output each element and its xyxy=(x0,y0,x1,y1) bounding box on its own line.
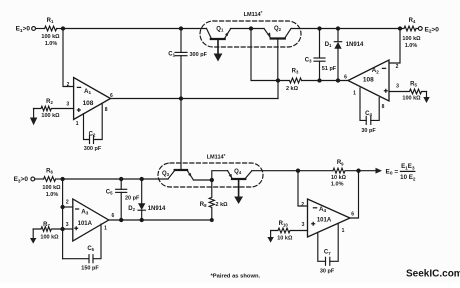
svg-text:8: 8 xyxy=(105,107,108,113)
transistor Q4 xyxy=(228,171,252,197)
svg-text:6: 6 xyxy=(351,211,354,217)
svg-text:C5: C5 xyxy=(106,189,113,195)
svg-text:1: 1 xyxy=(342,228,345,234)
junction R8 bottom corner xyxy=(210,219,213,222)
svg-text:E2>0: E2>0 xyxy=(425,26,440,34)
resistor R5 xyxy=(389,89,427,94)
op-amp A2 xyxy=(348,60,389,101)
wire node B down to A1 output xyxy=(277,81,279,99)
svg-text:100 kΩ: 100 kΩ xyxy=(41,34,60,40)
wire node D down to C6 loop xyxy=(62,179,64,259)
op-amp A3 xyxy=(73,199,109,241)
ground at Q4 base xyxy=(234,197,243,205)
wire Q3 base riser xyxy=(180,99,182,171)
junction A3 pin2 tee xyxy=(61,205,64,208)
wire node D to Q3 emitter-left xyxy=(63,178,168,180)
svg-text:100 kΩ: 100 kΩ xyxy=(40,235,59,241)
svg-text:101A: 101A xyxy=(317,217,332,223)
svg-text:E0 =: E0 = xyxy=(386,168,399,176)
capacitor C4 (A2 comp, pin1-pin8) xyxy=(360,88,379,125)
junction C5 top xyxy=(120,177,123,180)
junction D1 top xyxy=(336,27,339,30)
op-amp A4 xyxy=(308,199,351,237)
svg-text:LM114*: LM114* xyxy=(244,10,263,18)
wire node A to A1 pin 2 xyxy=(63,29,74,87)
svg-text:3: 3 xyxy=(302,222,305,228)
wire R1 to node A xyxy=(57,28,63,30)
wire node A to Q1 collector (top rail) xyxy=(63,28,207,30)
svg-text:A3: A3 xyxy=(81,208,88,215)
resistor R7 xyxy=(33,227,73,232)
svg-text:C1: C1 xyxy=(168,52,175,58)
svg-text:6: 6 xyxy=(110,93,113,99)
svg-text:1N914: 1N914 xyxy=(148,206,166,212)
svg-text:150 pF: 150 pF xyxy=(81,265,99,271)
svg-text:D1: D1 xyxy=(325,42,332,48)
svg-text:E3>0: E3>0 xyxy=(14,176,29,184)
ground at R10 xyxy=(267,231,273,243)
node E1 input terminal xyxy=(32,27,36,31)
svg-text:R4: R4 xyxy=(409,18,416,24)
junction D1 bottom xyxy=(336,79,339,82)
svg-text:30 pF: 30 pF xyxy=(361,128,376,134)
capacitor C1 xyxy=(175,29,187,99)
minus sign A4 xyxy=(313,207,317,209)
junction A4 pin2 tee xyxy=(296,169,299,172)
svg-text:2: 2 xyxy=(301,202,304,208)
svg-text:300 pF: 300 pF xyxy=(84,146,102,152)
op-amp A1 xyxy=(74,78,111,120)
resistor R3 xyxy=(278,78,302,83)
svg-text:2: 2 xyxy=(396,64,399,70)
output arrow E0 xyxy=(376,168,383,174)
svg-text:R9: R9 xyxy=(337,160,344,166)
wire Q4 collector to R9 xyxy=(252,170,333,172)
node B junction (Q2 base / R3 / rail link / A1 out) xyxy=(276,79,279,82)
svg-text:51 pF: 51 pF xyxy=(322,66,337,72)
svg-text:A1: A1 xyxy=(84,88,91,95)
svg-text:1: 1 xyxy=(104,226,107,232)
fraction bar E0 formula xyxy=(400,170,416,172)
svg-text:R1: R1 xyxy=(47,18,54,24)
resistor R2 xyxy=(33,106,73,111)
plus sign A1 xyxy=(77,108,81,112)
svg-text:2 kΩ: 2 kΩ xyxy=(216,202,229,208)
svg-text:1.0%: 1.0% xyxy=(45,41,58,47)
svg-text:D2: D2 xyxy=(128,206,135,212)
svg-text:100 kΩ: 100 kΩ xyxy=(42,185,61,191)
junction C5 bottom xyxy=(120,218,123,221)
svg-text:100 kΩ: 100 kΩ xyxy=(41,113,60,119)
wire tee to A4 pin 2 xyxy=(298,171,308,206)
node D junction xyxy=(61,177,64,180)
svg-text:6: 6 xyxy=(112,213,115,219)
svg-text:R3: R3 xyxy=(292,69,299,75)
resistor R10 xyxy=(271,228,308,233)
svg-text:E1>0: E1>0 xyxy=(16,26,31,34)
wire node E up and to Q4 xyxy=(212,171,228,180)
svg-text:A2: A2 xyxy=(372,67,379,74)
svg-text:20 pF: 20 pF xyxy=(125,196,140,202)
svg-text:10 E2: 10 E2 xyxy=(400,174,416,181)
plus sign A3 xyxy=(74,226,78,230)
svg-text:3: 3 xyxy=(66,222,69,228)
svg-text:R7: R7 xyxy=(43,222,50,228)
node C junction xyxy=(398,27,401,30)
diode D1 xyxy=(334,29,341,81)
svg-text:8: 8 xyxy=(382,104,385,110)
svg-text:Q2: Q2 xyxy=(274,26,282,32)
svg-text:1.0%: 1.0% xyxy=(331,182,344,188)
ground at Q1 base xyxy=(214,54,223,62)
node E junction xyxy=(210,178,213,181)
svg-text:R10: R10 xyxy=(279,221,289,227)
capacitor C7 (A4 comp) xyxy=(318,224,338,266)
svg-text:C6: C6 xyxy=(87,246,94,252)
svg-text:Q1: Q1 xyxy=(216,27,224,33)
svg-text:C2: C2 xyxy=(89,131,96,137)
wire A2 output pin 6 to R3 xyxy=(302,80,349,82)
junction D2 bottom xyxy=(140,218,143,221)
svg-text:2: 2 xyxy=(67,82,70,88)
svg-text:1.0%: 1.0% xyxy=(46,192,59,198)
junction A1 out / C1 / Q3 base xyxy=(179,97,182,100)
resistor R1 xyxy=(45,26,57,31)
junction at A3 pin3 crossing xyxy=(61,227,64,230)
svg-text:R5: R5 xyxy=(410,82,417,88)
minus sign A1 xyxy=(77,86,81,88)
wire tee to A3 pin 2 xyxy=(63,206,73,208)
svg-text:R8: R8 xyxy=(200,202,207,208)
svg-text:2 kΩ: 2 kΩ xyxy=(286,86,299,92)
node E2 input terminal xyxy=(418,27,422,31)
ground at R7 xyxy=(30,229,36,244)
capacitor C6 (A3 feedforward to pin1) xyxy=(63,224,101,263)
svg-text:100 kΩ: 100 kΩ xyxy=(402,95,421,101)
junction C1 top xyxy=(179,27,182,30)
ground at R5 xyxy=(423,92,429,104)
node A junction xyxy=(61,27,64,30)
svg-text:300 pF: 300 pF xyxy=(190,52,208,58)
svg-text:C4: C4 xyxy=(365,111,372,117)
transistor Q2 xyxy=(264,29,291,81)
wire Q3 emitter rail to node E xyxy=(193,179,211,181)
svg-text:2: 2 xyxy=(66,199,69,205)
minus sign A3 xyxy=(75,208,79,210)
svg-text:10 kΩ: 10 kΩ xyxy=(277,236,293,242)
svg-text:1N914: 1N914 xyxy=(346,42,364,48)
svg-text:Q3: Q3 xyxy=(162,171,170,177)
wire Q1 emitter to Q2 (rail) xyxy=(231,28,265,30)
svg-text:R6: R6 xyxy=(46,169,53,175)
svg-text:108: 108 xyxy=(83,100,94,107)
wire E3 terminal to R6 xyxy=(35,178,44,180)
diode D2 xyxy=(138,179,145,220)
svg-text:108: 108 xyxy=(363,77,374,84)
resistor R6 xyxy=(44,177,56,182)
svg-text:10 kΩ: 10 kΩ xyxy=(331,175,347,181)
node F output junction xyxy=(357,169,360,172)
resistor R4 xyxy=(400,26,418,31)
svg-text:1: 1 xyxy=(76,121,79,127)
dashed outline LM114 pair 2 xyxy=(158,163,263,187)
svg-text:1.0%: 1.0% xyxy=(405,43,418,49)
wire node B to rail riser xyxy=(251,29,278,81)
svg-text:3: 3 xyxy=(66,102,69,108)
svg-text:30 pF: 30 pF xyxy=(320,268,335,274)
wire node C to A2 pin 2 xyxy=(389,29,400,64)
junction C3 top xyxy=(318,27,321,30)
svg-text:C3: C3 xyxy=(305,58,312,64)
plus sign A4 xyxy=(311,222,315,226)
junction rail to node B xyxy=(249,27,252,30)
svg-text:*Paired as shown.: *Paired as shown. xyxy=(211,274,261,280)
minus sign A2 xyxy=(382,67,386,69)
wire A4 output to node F xyxy=(350,171,359,218)
wire A3 output pin 6 xyxy=(109,219,212,221)
capacitor C5 xyxy=(116,179,127,220)
wire Q2 collector to node C xyxy=(291,28,400,30)
junction C3 bottom xyxy=(318,79,321,82)
wire R6 to node D xyxy=(56,178,63,180)
capacitor C3 xyxy=(314,29,325,81)
svg-text:R2: R2 xyxy=(46,99,53,105)
transistor Q3 xyxy=(168,170,193,180)
plus sign A2 xyxy=(384,89,388,93)
svg-text:Q4: Q4 xyxy=(234,169,242,175)
resistor R9 xyxy=(333,168,359,173)
junction D2 top xyxy=(140,177,143,180)
svg-text:E1E3: E1E3 xyxy=(401,163,415,170)
wire E1 terminal to R1 xyxy=(36,28,45,30)
wire A1 output pin 6 xyxy=(111,98,279,100)
transistor Q1 xyxy=(207,29,231,54)
svg-text:1: 1 xyxy=(353,91,356,97)
svg-text:C7: C7 xyxy=(324,250,331,256)
dashed outline LM114 pair 1 xyxy=(200,21,301,47)
resistor R8 xyxy=(209,180,214,220)
svg-text:6: 6 xyxy=(344,75,347,81)
svg-text:SeekIC.com: SeekIC.com xyxy=(406,269,460,280)
svg-text:101A: 101A xyxy=(78,221,93,227)
svg-text:LM114*: LM114* xyxy=(207,153,226,161)
capacitor C2 (A1 comp, pin1-pin8) xyxy=(84,103,103,143)
wire node F to output arrow xyxy=(359,170,376,172)
svg-text:3: 3 xyxy=(396,84,399,90)
ground at R2 xyxy=(30,109,37,126)
svg-text:100 kΩ: 100 kΩ xyxy=(402,36,421,42)
node E3 input terminal xyxy=(31,177,35,181)
